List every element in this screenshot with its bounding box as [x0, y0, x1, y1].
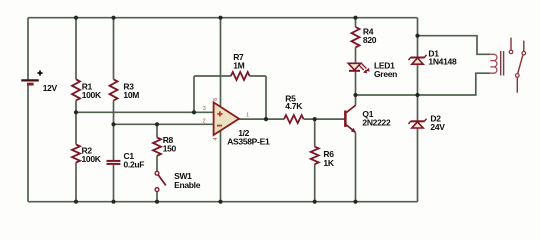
- wire R3 top branch: [113, 18, 115, 80]
- svg-text:3: 3: [203, 106, 206, 112]
- relay contact pin common: [522, 41, 526, 55]
- wire LED1 to node: [355, 72, 357, 95]
- wire R6 bottom branch: [314, 164, 316, 202]
- resistor R6: [311, 147, 335, 168]
- wire R5 to Q1 base: [304, 118, 345, 120]
- zener diode D2 24V: [408, 114, 445, 132]
- wire feedback top right: [250, 75, 266, 77]
- resistor R2: [72, 145, 102, 164]
- wire SW1 to bottom rail: [156, 192, 158, 202]
- wire C1 top branch: [113, 124, 115, 160]
- svg-text:2N2222: 2N2222: [362, 118, 391, 128]
- node R1-R2 junction: [74, 110, 78, 114]
- wire op-amp output: [239, 118, 284, 120]
- svg-text:100K: 100K: [82, 90, 102, 100]
- wire node horizontal to diode branch: [356, 94, 418, 96]
- wire relay return: [418, 73, 491, 95]
- wire R2 top branch: [75, 112, 77, 144]
- wire R8 top branch: [156, 124, 158, 137]
- wire relay feed: [418, 36, 491, 55]
- node feedback junction: [192, 110, 196, 114]
- svg-text:150: 150: [163, 144, 177, 154]
- svg-text:10M: 10M: [123, 90, 139, 100]
- node output-feedback junction: [264, 117, 268, 121]
- node Q1 emitter bottom: [353, 200, 357, 204]
- wire feedback right vertical: [265, 76, 267, 119]
- wire Q1 emitter to bottom rail: [355, 133, 357, 202]
- wire diode branch vertical: [417, 18, 419, 202]
- node diode branch mid junction: [415, 93, 419, 97]
- resistor R1: [72, 79, 102, 100]
- wire feedback left vertical: [193, 76, 195, 112]
- svg-text:1M: 1M: [233, 61, 244, 71]
- resistor R5: [284, 93, 304, 123]
- wire bottom rail: [28, 201, 418, 203]
- wire op-amp pin8 stub: [220, 18, 222, 107]
- resistor R4: [352, 27, 377, 48]
- relay contact blade: [516, 55, 523, 92]
- node LED-collector junction: [353, 93, 357, 97]
- wire op-amp pin2 net: [114, 123, 214, 125]
- svg-text:820: 820: [363, 35, 377, 45]
- node R3 top: [111, 16, 115, 20]
- resistor R8: [153, 135, 177, 156]
- node pin8 top: [218, 16, 222, 20]
- wire top rail: [28, 17, 418, 19]
- battery 12V: [21, 71, 57, 94]
- node SW1 bottom: [155, 200, 159, 204]
- op-amp U1 1/2 AS358P-E1: [214, 102, 270, 146]
- node R1 top: [74, 16, 78, 20]
- svg-text:AS358P-E1: AS358P-E1: [227, 136, 270, 146]
- wire R1 top branch: [75, 18, 77, 80]
- wire op-amp pin3 net: [76, 111, 214, 113]
- svg-text:4.7K: 4.7K: [285, 101, 303, 111]
- svg-text:2: 2: [202, 118, 205, 124]
- svg-text:8: 8: [213, 98, 219, 101]
- node R3-C1 junction: [111, 122, 115, 126]
- svg-text:4: 4: [213, 137, 219, 140]
- svg-text:Enable: Enable: [174, 180, 201, 190]
- diode D1 1N4148: [408, 48, 457, 66]
- svg-text:1K: 1K: [323, 158, 334, 168]
- node C1 bottom: [111, 200, 115, 204]
- wire R4 top branch: [355, 18, 357, 27]
- switch SW1: [155, 171, 201, 191]
- wire R1 bottom branch: [75, 101, 77, 113]
- transistor Q1 2N2222: [344, 105, 391, 133]
- capacitor C1: [107, 151, 145, 170]
- svg-text:24V: 24V: [430, 122, 445, 132]
- wire R8 to SW1: [156, 156, 158, 172]
- node R4 top: [353, 16, 357, 20]
- wire feedback top left: [194, 75, 231, 77]
- wire R4 to LED1: [355, 47, 357, 63]
- resistor R7: [231, 52, 250, 80]
- relay coil K1: [490, 51, 503, 76]
- relay contact pin NO: [509, 38, 513, 54]
- svg-text:Green: Green: [374, 69, 397, 79]
- wire C1 bottom branch: [113, 165, 115, 202]
- svg-text:0.2uF: 0.2uF: [124, 160, 145, 170]
- wire op-amp pin4 stub: [220, 131, 222, 202]
- wire left rail lower: [27, 85, 29, 202]
- resistor R3: [110, 79, 140, 100]
- wire left rail upper: [27, 18, 29, 80]
- wire R6 top branch: [314, 119, 316, 147]
- node R2 bottom: [74, 200, 78, 204]
- LED LED1 Green: [348, 61, 397, 79]
- node relay feed junction: [415, 34, 419, 38]
- svg-text:100K: 100K: [82, 154, 102, 164]
- node R6 top junction: [313, 117, 317, 121]
- node pin4 bottom: [218, 200, 222, 204]
- wire R3 bottom branch: [113, 101, 115, 125]
- node R6 bottom: [313, 200, 317, 204]
- wire node to Q1 collector: [355, 95, 357, 106]
- wire R2 bottom branch: [75, 163, 77, 202]
- svg-text:12V: 12V: [43, 83, 58, 93]
- svg-text:1N4148: 1N4148: [428, 56, 457, 66]
- svg-text:1: 1: [246, 113, 249, 119]
- node R8 top junction: [155, 122, 159, 126]
